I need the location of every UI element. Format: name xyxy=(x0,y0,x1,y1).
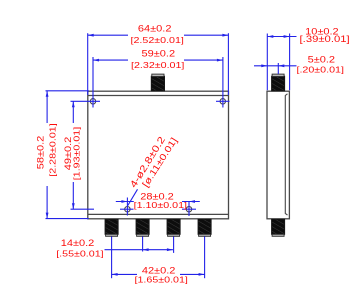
dim 28 arrows (outside) xyxy=(121,200,127,203)
svg-text:[1.65±0.01]: [1.65±0.01] xyxy=(135,276,188,286)
dim 58 line xyxy=(46,91,48,123)
svg-text:[1.93±0.01]: [1.93±0.01] xyxy=(72,127,82,180)
dim 64 arrows xyxy=(88,34,94,37)
svg-text:[.20±0.01]: [.20±0.01] xyxy=(296,66,343,76)
dim 49 arrows xyxy=(72,101,75,107)
side dim 10 extension left xyxy=(266,34,268,91)
output connector 3 xyxy=(167,219,180,236)
dim 14 arrows xyxy=(143,248,149,251)
svg-text:5±0.2: 5±0.2 xyxy=(308,55,336,65)
dim 58 extension top xyxy=(46,90,89,92)
svg-text:59±0.2: 59±0.2 xyxy=(142,49,176,59)
side dim 5 arrows (outside) xyxy=(261,64,267,67)
front view body outline xyxy=(88,91,229,219)
svg-text:[2.28±0.01]: [2.28±0.01] xyxy=(48,123,58,176)
hole crosshair bottom-right xyxy=(182,208,196,210)
dim 28 line left piece xyxy=(116,201,134,203)
leader for 4-holes callout xyxy=(128,189,138,205)
output connector 1 (bottom row) xyxy=(105,219,118,236)
dim 42 line xyxy=(112,273,137,275)
mounting hole bottom-left xyxy=(125,207,130,212)
mounting hole bottom-right xyxy=(186,207,191,212)
arrowheads xyxy=(46,34,290,276)
dim 49 extension bottom xyxy=(71,208,95,210)
hole crosshair top-right xyxy=(216,100,230,102)
svg-text:[.55±0.01]: [.55±0.01] xyxy=(56,249,103,259)
svg-text:[1.10±0.01]: [1.10±0.01] xyxy=(134,201,187,211)
dim 42 arrows xyxy=(112,273,118,276)
side view cover seam xyxy=(285,94,287,215)
dim 58 arrows xyxy=(46,91,49,97)
svg-text:[.39±0.01]: [.39±0.01] xyxy=(300,35,350,45)
dim 59 extension/centre line right (through hole) xyxy=(222,57,224,108)
side dim 5 line with tails xyxy=(254,65,297,67)
mounting hole top-left xyxy=(90,99,95,104)
dim 64 extension line right xyxy=(227,33,229,95)
side dim 10 line with tail xyxy=(267,36,296,38)
side view bottom connector xyxy=(272,219,285,236)
mounting hole top-right xyxy=(220,99,225,104)
dim 14 line xyxy=(105,249,173,251)
svg-text:64±0.2: 64±0.2 xyxy=(138,24,172,34)
dim 59 line xyxy=(93,59,128,61)
dim 64 line xyxy=(88,34,128,36)
dim 49 extension top (to hole) xyxy=(71,100,101,102)
side dim 10 arrows xyxy=(267,35,273,38)
svg-text:[2.32±0.01]: [2.32±0.01] xyxy=(131,61,184,71)
front view top lid seam xyxy=(88,95,229,97)
dim 64 extension line left xyxy=(87,33,89,95)
side view top connector xyxy=(272,74,285,91)
dim 59 arrows xyxy=(93,59,99,62)
front view bottom lid seam xyxy=(88,213,229,215)
dim 28 line right piece xyxy=(182,201,200,203)
side dim 10 extension right xyxy=(289,34,291,91)
svg-text:58±0.2: 58±0.2 xyxy=(37,135,47,169)
input connector (top of front view) xyxy=(151,74,164,91)
svg-text:14±0.2: 14±0.2 xyxy=(61,239,95,249)
output connector 2 xyxy=(136,219,149,236)
svg-text:[2.52±0.01]: [2.52±0.01] xyxy=(131,36,184,46)
svg-text:42±0.2: 42±0.2 xyxy=(142,266,176,276)
hole crosshair bottom-left xyxy=(120,208,134,210)
dim 59 extension/centre line left (through hole) xyxy=(92,57,94,108)
dim 49 line xyxy=(72,101,74,123)
output connector 4 xyxy=(198,219,211,236)
side connector centreline stub xyxy=(277,63,279,74)
dim 58 extension bottom xyxy=(46,218,89,220)
side view body outline xyxy=(267,91,289,219)
output connector centrelines xyxy=(111,237,113,279)
